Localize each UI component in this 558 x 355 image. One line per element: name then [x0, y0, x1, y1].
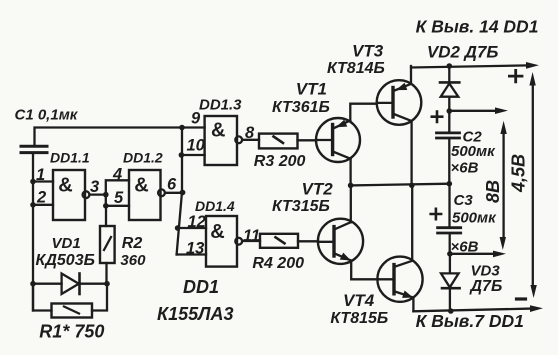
node VD2 top: [447, 63, 453, 69]
node junction top bus: [179, 125, 185, 131]
wire to pin 4: [106, 180, 129, 194]
bottom rail arrowhead: [530, 305, 543, 312]
gate DD1.1: [53, 170, 89, 220]
wire pin 10: [181, 154, 204, 156]
node VT1/VT2 collectors: [348, 183, 354, 189]
wire C2 to center tap: [448, 139, 450, 184]
svg-text:&: &: [134, 175, 148, 197]
wire VD3 to bottom rail: [449, 288, 451, 311]
wire top rail: [411, 65, 527, 67]
diode VD2: [440, 82, 459, 96]
wire pin 11 to R4: [242, 240, 260, 242]
svg-text:8В: 8В: [483, 180, 503, 203]
wire pin 3 output: [90, 193, 106, 195]
transistor VT3: [377, 80, 422, 125]
wire VT1 emitter to VT3 base: [350, 104, 377, 121]
dimension arrow 4.5V: [529, 72, 536, 298]
wire VT4 collector up: [411, 185, 413, 261]
wire VT2 emitter to VT4 base: [351, 261, 377, 280]
svg-text:10: 10: [187, 137, 206, 155]
wire pin 1: [33, 180, 53, 182]
svg-text:R2: R2: [122, 235, 143, 252]
wire to pin 5: [106, 195, 129, 206]
svg-text:3: 3: [90, 178, 99, 196]
wire center tap line: [351, 184, 450, 186]
node center tap at C2/C3: [447, 181, 453, 187]
top rail arrowhead: [526, 62, 539, 69]
svg-text:VT2: VT2: [302, 180, 334, 199]
svg-text:&: &: [58, 175, 72, 197]
svg-text:1: 1: [36, 166, 45, 184]
resistor R2: [100, 226, 115, 263]
svg-text:К155ЛА3: К155ЛА3: [157, 304, 233, 324]
svg-text:&: &: [211, 120, 225, 142]
wire VT4 emitter down to rail: [412, 298, 414, 312]
svg-text:КТ815Б: КТ815Б: [330, 310, 388, 327]
wire pin 8 to R3: [242, 139, 259, 141]
svg-text:DD1.1: DD1.1: [50, 150, 90, 166]
plus sign C3: [431, 209, 441, 219]
svg-text:DD1.3: DD1.3: [199, 97, 242, 114]
wire C1 top to pin 9: [35, 128, 205, 147]
node VD1 right: [104, 281, 110, 287]
gate DD1.2: [129, 170, 165, 220]
node VT3/VT4 collectors: [409, 183, 415, 189]
svg-text:DD1.4: DD1.4: [195, 198, 235, 214]
wire VD2 to tap1: [448, 97, 450, 111]
wire pin 12: [178, 227, 206, 229]
svg-text:VT4: VT4: [343, 291, 375, 310]
svg-text:C3: C3: [454, 192, 474, 209]
wire VD2 top lead: [448, 66, 450, 82]
svg-text:360: 360: [120, 252, 146, 269]
wire bottom rail: [413, 309, 530, 312]
svg-text:500мк: 500мк: [451, 143, 496, 160]
svg-text:КД503Б: КД503Б: [36, 252, 95, 269]
wire bus from top wire down to pin13: [177, 128, 182, 255]
svg-text:11: 11: [243, 227, 260, 245]
node pin6 bus: [180, 190, 186, 196]
wire VT1 collector down: [349, 159, 351, 186]
svg-text:R3 200: R3 200: [254, 153, 306, 170]
svg-text:R4 200: R4 200: [252, 255, 304, 272]
wire tap1 to C2: [448, 111, 450, 131]
wire down to R2: [105, 206, 107, 226]
svg-text:2: 2: [36, 189, 46, 207]
svg-text:R1* 750: R1* 750: [39, 322, 104, 342]
node pin12: [175, 225, 181, 231]
svg-text:12: 12: [188, 213, 206, 231]
svg-text:4: 4: [112, 166, 122, 184]
svg-text:DD1: DD1: [183, 277, 219, 297]
svg-text:DD1.2: DD1.2: [123, 150, 163, 166]
node tap2: [447, 251, 453, 257]
capacitor C2: [437, 133, 460, 138]
wire pin 2: [33, 204, 53, 206]
wire pin 13: [177, 253, 206, 255]
wire C3 to tap2: [449, 234, 451, 254]
svg-text:4,5В: 4,5В: [509, 154, 529, 193]
node pin1: [30, 179, 36, 185]
wire tap2 to VD3: [449, 254, 451, 273]
svg-text:КТ361Б: КТ361Б: [272, 99, 330, 116]
transistor VT2: [318, 219, 363, 264]
svg-text:VT3: VT3: [352, 42, 384, 61]
svg-text:К Выв. 14 DD1: К Выв. 14 DD1: [416, 17, 539, 37]
capacitor C3: [438, 228, 461, 233]
plus sign top right: [509, 70, 522, 81]
wire VT3 emitter up to rail: [410, 66, 412, 84]
diode VD3: [441, 273, 460, 288]
node tap1: [447, 108, 453, 114]
minus sign bottom right: [517, 297, 526, 300]
node VD1 left: [30, 281, 36, 287]
transistor VT4: [377, 257, 422, 302]
svg-text:VD3: VD3: [471, 263, 501, 280]
svg-text:5: 5: [114, 189, 124, 207]
resistor R4: [260, 234, 298, 248]
capacitor C1: [21, 146, 47, 152]
wire center tap to C3: [448, 184, 450, 227]
dimension arrow 8V: [500, 121, 507, 250]
svg-text:VT1: VT1: [296, 80, 327, 99]
tap2 arrow: [450, 253, 494, 255]
wire VD1 row right: [80, 283, 108, 285]
svg-text:КТ315Б: КТ315Б: [272, 198, 330, 215]
svg-text:VD2 Д7Б: VD2 Д7Б: [427, 43, 499, 62]
svg-text:К Выв.7 DD1: К Выв.7 DD1: [416, 311, 524, 331]
node pin2: [30, 202, 36, 208]
svg-text:VD1: VD1: [52, 235, 81, 252]
svg-text:КТ814Б: КТ814Б: [327, 60, 385, 77]
svg-text:6: 6: [167, 176, 177, 194]
svg-text:9: 9: [191, 110, 201, 128]
node pin10: [179, 152, 185, 158]
svg-text:Д7Б: Д7Б: [469, 278, 503, 295]
wire VT3 collector down: [410, 121, 412, 185]
tap1 arrow: [449, 110, 496, 112]
diode VD1: [62, 274, 80, 295]
wire R3 to VT1 base: [298, 139, 317, 141]
wire pin 6 to bus: [165, 192, 183, 194]
wire R1 loop left: [33, 284, 52, 311]
wire VD1 row left: [33, 283, 62, 285]
wire R4 to VT2 base: [298, 240, 318, 242]
svg-text:×6В: ×6В: [451, 160, 479, 177]
plus sign C2: [432, 112, 442, 122]
wire R1 loop right: [92, 284, 107, 311]
node pin3 junction: [103, 192, 109, 198]
gate DD1.3: [205, 116, 243, 165]
svg-text:C1 0,1мк: C1 0,1мк: [15, 107, 79, 124]
resistor R1: [52, 304, 93, 318]
transistor VT1: [316, 118, 360, 162]
wire C1 bottom down left rail: [32, 153, 34, 311]
svg-text:13: 13: [186, 240, 204, 258]
svg-text:&: &: [210, 221, 224, 243]
svg-text:500мк: 500мк: [452, 210, 497, 227]
node pin5 junction: [103, 203, 109, 209]
wire R2 bottom: [105, 263, 107, 284]
wire VT2 collector up: [350, 185, 352, 222]
gate DD1.4: [206, 216, 242, 267]
resistor R3: [259, 134, 298, 149]
node VD3 bottom: [448, 308, 454, 314]
